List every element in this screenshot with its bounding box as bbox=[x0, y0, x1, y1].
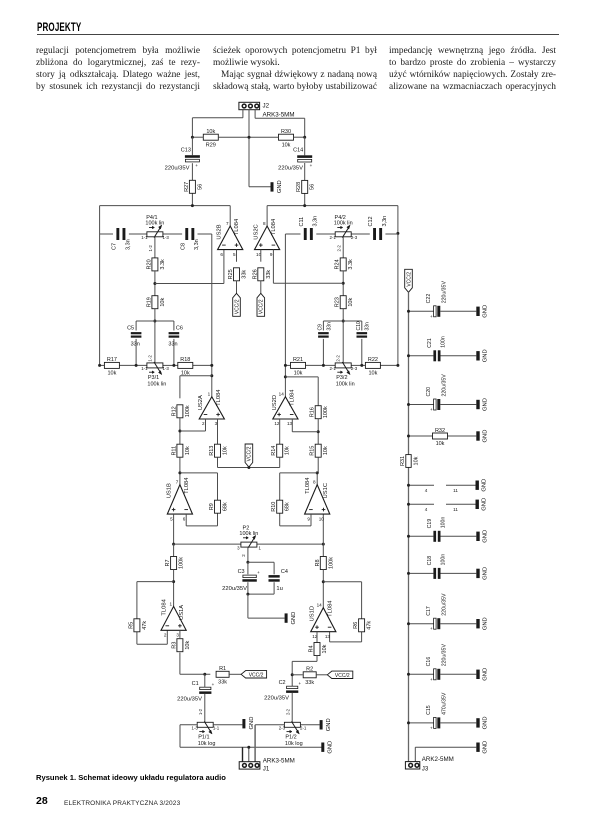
svg-text:GND: GND bbox=[482, 498, 488, 511]
node junction R22 right bbox=[396, 364, 399, 367]
svg-text:R26: R26 bbox=[252, 269, 258, 279]
svg-text:9: 9 bbox=[270, 252, 273, 257]
node junction US1C out bbox=[316, 471, 319, 474]
op-amp US2B bbox=[217, 218, 243, 257]
resistor R9 bbox=[209, 500, 229, 513]
wire US2A plus leg to R13 bbox=[217, 419, 219, 444]
svg-text:10k: 10k bbox=[160, 298, 166, 307]
wire US2B plus to R25 bbox=[236, 250, 238, 262]
node junction C10 bottom bbox=[360, 364, 363, 367]
svg-text:R23: R23 bbox=[335, 297, 341, 307]
connector J1 (ARK3-5MM) bbox=[239, 758, 295, 773]
svg-text:100k lin: 100k lin bbox=[145, 221, 164, 227]
svg-text:C22: C22 bbox=[426, 294, 432, 304]
svg-text:C10: C10 bbox=[356, 321, 362, 330]
op-amp US2C bbox=[254, 218, 280, 257]
wire supply rail upper bbox=[408, 292, 410, 455]
svg-text:5: 5 bbox=[170, 516, 173, 521]
wire power pins row 2 bbox=[409, 504, 476, 512]
svg-text:C1: C1 bbox=[192, 681, 199, 687]
svg-text:220u/35V: 220u/35V bbox=[278, 166, 303, 172]
svg-text:C6: C6 bbox=[176, 326, 183, 332]
wire C21 row bbox=[409, 355, 477, 357]
svg-text:R16: R16 bbox=[310, 407, 316, 417]
wire R14 to VCC rail bbox=[279, 457, 281, 467]
svg-text:GND: GND bbox=[483, 716, 489, 729]
wire US2A input column bbox=[211, 234, 213, 397]
wire C22 row bbox=[409, 310, 477, 312]
resistor R16 bbox=[310, 406, 330, 419]
svg-text:1-3: 1-3 bbox=[163, 235, 170, 240]
wire US1A plus to R3 bbox=[179, 630, 181, 638]
node junction C9 bottom bbox=[322, 364, 325, 367]
potentiometer P4/1 (100k lin) bbox=[141, 215, 169, 251]
svg-text:GND: GND bbox=[483, 349, 489, 362]
op-amp US1B bbox=[166, 477, 192, 522]
svg-text:US2D: US2D bbox=[272, 395, 278, 410]
svg-text:R31: R31 bbox=[400, 456, 406, 466]
svg-text:3,3n: 3,3n bbox=[382, 216, 388, 227]
svg-text:C16: C16 bbox=[426, 657, 432, 667]
svg-text:33k: 33k bbox=[305, 680, 314, 686]
wire right top feedback net bbox=[267, 206, 398, 366]
wire J1 stubs bbox=[243, 747, 249, 762]
svg-text:VCC/2: VCC/2 bbox=[259, 299, 265, 314]
wire C14 branch bbox=[304, 137, 306, 205]
svg-text:14: 14 bbox=[317, 603, 323, 608]
capacitor C17 (220u/35V) bbox=[426, 593, 447, 631]
resistor R13 bbox=[209, 444, 229, 457]
node junction rail/R17 bbox=[98, 364, 101, 367]
node junction US1D out bbox=[322, 580, 325, 583]
svg-text:100k lin: 100k lin bbox=[239, 531, 258, 537]
wire P1/1 left loop bbox=[180, 725, 323, 747]
wire C2 node to R2 bbox=[292, 674, 303, 676]
node junction C12 right bbox=[396, 232, 399, 235]
potentiometer P3/2 (100k lin) bbox=[330, 355, 358, 388]
svg-text:220u/35V: 220u/35V bbox=[442, 644, 448, 667]
svg-text:R22: R22 bbox=[368, 357, 378, 363]
svg-text:J3: J3 bbox=[422, 766, 429, 773]
resistor R4 bbox=[309, 643, 329, 656]
wire R23 to P3/2 wiper bbox=[342, 309, 344, 363]
svg-text:VCC/2: VCC/2 bbox=[249, 672, 264, 678]
capacitor C16 (220u/35V) bbox=[426, 644, 447, 682]
svg-text:R9: R9 bbox=[209, 503, 215, 510]
svg-text:100k: 100k bbox=[185, 405, 191, 417]
node junction VCC mid bbox=[247, 466, 250, 469]
power flag VCC/2 (R1) bbox=[241, 671, 267, 679]
svg-text:33n: 33n bbox=[131, 342, 140, 348]
svg-text:R8: R8 bbox=[315, 559, 321, 566]
svg-text:C17: C17 bbox=[426, 606, 432, 616]
ground GND (C16) bbox=[476, 668, 488, 681]
svg-text:US2C: US2C bbox=[254, 224, 260, 239]
svg-text:10k: 10k bbox=[185, 641, 191, 650]
svg-text:10k: 10k bbox=[185, 446, 191, 455]
svg-text:2-2: 2-2 bbox=[336, 355, 341, 362]
svg-text:10k: 10k bbox=[282, 142, 291, 148]
capacitor C6 (33n) bbox=[168, 326, 183, 348]
svg-text:8: 8 bbox=[263, 221, 266, 226]
node junction pins2 bbox=[407, 503, 410, 506]
svg-text:47k: 47k bbox=[142, 621, 148, 630]
svg-text:ARK2-5MM: ARK2-5MM bbox=[422, 756, 454, 763]
op-amp US2D bbox=[272, 389, 298, 426]
svg-text:7: 7 bbox=[176, 480, 179, 485]
wire P1/2 left to J1 bbox=[255, 725, 284, 762]
resistor R11 bbox=[171, 444, 191, 457]
svg-text:1: 1 bbox=[169, 601, 172, 606]
ground GND (P1/1) bbox=[242, 717, 254, 730]
svg-text:12: 12 bbox=[274, 421, 280, 426]
resistor R23 bbox=[335, 296, 355, 309]
svg-text:10k: 10k bbox=[414, 456, 420, 465]
ground GND (J3) bbox=[476, 741, 488, 754]
node junction wiper bbox=[246, 561, 249, 564]
wire P1/2 right to GND bbox=[300, 724, 319, 726]
wire R12 to R11 junction bbox=[179, 418, 181, 444]
ground GND (C21) bbox=[476, 349, 488, 362]
wire C17 row bbox=[409, 623, 477, 625]
wire C2 to P1/2 bbox=[286, 693, 293, 723]
resistor R6 bbox=[353, 619, 373, 632]
node junction C15 bbox=[407, 721, 410, 724]
node junction R20/R19 bbox=[153, 282, 156, 285]
svg-text:220u/35V: 220u/35V bbox=[442, 374, 448, 397]
svg-text:68k: 68k bbox=[223, 502, 229, 511]
wire US1A feedback R5 bbox=[137, 582, 174, 645]
svg-text:10k: 10k bbox=[107, 371, 116, 377]
wire mid rail bbox=[174, 543, 324, 545]
ground GND (J2) bbox=[271, 180, 284, 193]
svg-text:GND: GND bbox=[483, 430, 489, 443]
wire US1D plus to R4 bbox=[316, 632, 318, 643]
resistor R27 bbox=[184, 180, 204, 193]
svg-text:2-2: 2-2 bbox=[286, 708, 291, 715]
resistor R18 bbox=[178, 357, 193, 376]
node junction R12/R11 bbox=[178, 430, 181, 433]
capacitor C13 (220u/35V) bbox=[165, 148, 200, 172]
svg-text:4: 4 bbox=[425, 507, 428, 512]
svg-text:R27: R27 bbox=[184, 182, 190, 192]
capacitor C11 (3,3n) bbox=[299, 216, 319, 240]
svg-text:TL084: TL084 bbox=[234, 218, 240, 235]
power flag VCC/2 (US2C) bbox=[257, 293, 265, 316]
svg-text:13: 13 bbox=[287, 421, 293, 426]
svg-text:C4: C4 bbox=[281, 569, 288, 575]
svg-text:3,3n: 3,3n bbox=[313, 216, 319, 227]
wire R24 to R23 bbox=[342, 271, 344, 296]
node junction US1B out bbox=[178, 471, 181, 474]
svg-text:R5: R5 bbox=[128, 622, 134, 629]
svg-text:1-2: 1-2 bbox=[147, 355, 152, 362]
wire P4/2 wiper to R24 bbox=[342, 237, 344, 259]
svg-text:TL084: TL084 bbox=[305, 477, 311, 494]
svg-text:TL084: TL084 bbox=[162, 598, 168, 615]
wire US1C feedback R10 bbox=[280, 473, 318, 526]
wire C5 C6 row bbox=[136, 321, 174, 365]
svg-text:6: 6 bbox=[220, 252, 223, 257]
wire US2B minus feedback bbox=[155, 250, 224, 284]
svg-text:R14: R14 bbox=[271, 446, 277, 456]
wire R13 to VCC rail bbox=[217, 457, 219, 467]
svg-text:J1: J1 bbox=[263, 766, 270, 773]
node junction C2 bbox=[291, 673, 294, 676]
wire R25 to VCC flag bbox=[236, 281, 238, 294]
capacitor C9 (33n) bbox=[318, 322, 333, 338]
svg-text:GND: GND bbox=[483, 530, 489, 543]
power flag VCC/2 (column) bbox=[405, 269, 413, 292]
svg-text:3,3n: 3,3n bbox=[194, 239, 200, 250]
svg-text:6: 6 bbox=[183, 516, 186, 521]
wire R21 row bbox=[285, 364, 398, 366]
svg-text:TL084: TL084 bbox=[184, 477, 190, 494]
potentiometer P3/1 (100k lin) bbox=[141, 355, 169, 388]
node junction C5/C6 row bbox=[153, 320, 156, 323]
svg-text:P3/2: P3/2 bbox=[336, 375, 347, 381]
wire US2D feedback to R16 bbox=[285, 377, 318, 406]
wire power pins row 1 bbox=[409, 485, 476, 493]
svg-text:33n: 33n bbox=[168, 342, 177, 348]
op-amp US1C bbox=[305, 477, 330, 522]
node junction R32 bbox=[407, 435, 410, 438]
svg-text:100k lin: 100k lin bbox=[334, 221, 353, 227]
svg-text:7: 7 bbox=[226, 221, 229, 226]
svg-text:220u/35V: 220u/35V bbox=[442, 281, 448, 304]
svg-text:R11: R11 bbox=[171, 446, 177, 456]
wire J2 pin1 to R29 bbox=[192, 110, 243, 138]
svg-text:C14: C14 bbox=[293, 148, 303, 154]
svg-text:GND: GND bbox=[483, 305, 489, 318]
potentiometer P4/2 (100k lin) bbox=[330, 215, 358, 251]
svg-text:56: 56 bbox=[197, 184, 203, 190]
resistor R5 bbox=[128, 619, 148, 632]
svg-text:GND: GND bbox=[326, 718, 332, 731]
svg-text:11: 11 bbox=[453, 507, 458, 512]
svg-text:R15: R15 bbox=[310, 446, 316, 456]
wire VCC/2 mid rail bbox=[218, 467, 280, 469]
wire US2D input column bbox=[284, 234, 286, 397]
wire C3 C4 bottom bbox=[248, 582, 274, 594]
svg-text:2: 2 bbox=[164, 633, 167, 638]
wire C1 branch bbox=[198, 674, 205, 722]
svg-text:R10: R10 bbox=[271, 502, 277, 512]
svg-text:3.3k: 3.3k bbox=[160, 259, 166, 270]
svg-text:R25: R25 bbox=[228, 269, 234, 279]
connector J2 (ARK3-5MM) bbox=[239, 102, 295, 118]
svg-text:US2A: US2A bbox=[198, 395, 204, 410]
svg-text:2: 2 bbox=[202, 421, 205, 426]
wire R32 row bbox=[409, 435, 477, 437]
resistor R15 bbox=[310, 444, 330, 457]
svg-text:US1A: US1A bbox=[179, 605, 185, 620]
svg-text:VCC/2: VCC/2 bbox=[247, 446, 253, 461]
svg-text:100n: 100n bbox=[441, 336, 447, 348]
node junction C13 top net bbox=[191, 204, 194, 207]
svg-text:P1/1: P1/1 bbox=[198, 735, 209, 741]
ground GND (C15) bbox=[476, 716, 488, 729]
capacitor C19 (100n) bbox=[427, 517, 446, 542]
svg-text:R20: R20 bbox=[146, 259, 152, 269]
capacitor C3 (220u/35V) bbox=[222, 569, 260, 592]
capacitor C12 (3,3n) bbox=[368, 216, 388, 240]
svg-text:68k: 68k bbox=[285, 502, 291, 511]
svg-text:1u: 1u bbox=[276, 586, 282, 592]
svg-text:220u/35V: 220u/35V bbox=[165, 166, 190, 172]
svg-text:C12: C12 bbox=[368, 216, 374, 226]
svg-text:C13: C13 bbox=[181, 148, 191, 154]
svg-text:9: 9 bbox=[307, 516, 310, 521]
svg-text:1-2: 1-2 bbox=[198, 708, 203, 715]
node junction C5 bottom bbox=[135, 364, 138, 367]
wire C11 row bbox=[285, 233, 398, 235]
wire J2 pin3 to R30 bbox=[255, 110, 305, 138]
resistor R7 bbox=[165, 557, 185, 570]
resistor R3 bbox=[171, 639, 191, 652]
resistor R24 bbox=[335, 258, 355, 271]
svg-text:US1D: US1D bbox=[310, 606, 316, 621]
svg-text:1: 1 bbox=[208, 392, 211, 397]
node junction middle bbox=[248, 136, 251, 139]
svg-text:11: 11 bbox=[453, 488, 458, 493]
resistor R25 bbox=[228, 268, 248, 281]
potentiometer P1/1 (10k log) bbox=[192, 721, 220, 747]
capacitor C10 (33n) bbox=[356, 321, 371, 338]
node junction C17 bbox=[407, 622, 410, 625]
svg-text:R28: R28 bbox=[296, 182, 302, 192]
svg-text:33n: 33n bbox=[365, 322, 371, 331]
ground GND (R32) bbox=[476, 430, 488, 443]
ground GND (C20) bbox=[476, 398, 488, 411]
svg-text:33n: 33n bbox=[326, 322, 332, 331]
node junction J1 mid bbox=[247, 746, 250, 749]
svg-text:GND: GND bbox=[249, 717, 255, 730]
svg-text:3,3n: 3,3n bbox=[125, 239, 131, 250]
capacitor C18 (100n) bbox=[427, 554, 446, 579]
svg-text:33k: 33k bbox=[218, 680, 227, 686]
svg-text:8: 8 bbox=[313, 480, 316, 485]
svg-text:C8: C8 bbox=[180, 243, 186, 250]
svg-text:+: + bbox=[430, 677, 433, 682]
wire rail to R7 bbox=[173, 544, 175, 557]
node junction US1A out bbox=[172, 580, 175, 583]
wire R16 to R15 junction bbox=[317, 419, 319, 445]
wire R7 to US1A bbox=[173, 569, 175, 606]
node junction R30 right bbox=[303, 136, 306, 139]
svg-text:33k: 33k bbox=[242, 270, 248, 279]
node junction R16/R15 bbox=[317, 430, 320, 433]
connector J3 (ARK2-5MM) bbox=[405, 756, 453, 773]
op-amp US2A bbox=[198, 389, 224, 426]
svg-text:R19: R19 bbox=[146, 297, 152, 307]
svg-text:GND: GND bbox=[483, 668, 489, 681]
wire rail to R8 bbox=[322, 514, 324, 557]
resistor R30 bbox=[279, 129, 294, 148]
svg-text:GND: GND bbox=[483, 398, 489, 411]
wire US1D feedback R6 bbox=[323, 582, 361, 642]
svg-text:+: + bbox=[430, 626, 433, 631]
svg-text:P1/2: P1/2 bbox=[285, 735, 296, 741]
potentiometer P1/2 (10k log) bbox=[279, 721, 307, 747]
svg-text:2: 2 bbox=[241, 554, 246, 557]
svg-text:10k: 10k bbox=[322, 644, 328, 653]
svg-text:3: 3 bbox=[176, 633, 179, 638]
ground GND (pins2) bbox=[476, 498, 488, 511]
wire to GND bbox=[248, 594, 285, 618]
svg-text:10k: 10k bbox=[294, 371, 303, 377]
capacitor C8 (3,3n) bbox=[180, 228, 200, 250]
ground GND (C22) bbox=[476, 305, 488, 318]
svg-text:R32: R32 bbox=[435, 428, 445, 434]
capacitor C20 (220u/35V) bbox=[426, 374, 447, 412]
svg-text:C9: C9 bbox=[318, 324, 324, 331]
node junction US2A out bbox=[210, 374, 213, 377]
resistor R26 bbox=[252, 268, 272, 281]
svg-text:+: + bbox=[257, 570, 260, 575]
node junction C3 bottom bbox=[246, 593, 249, 596]
node junction R21 left bbox=[284, 364, 287, 367]
svg-text:5: 5 bbox=[233, 252, 236, 257]
svg-text:C20: C20 bbox=[426, 387, 432, 397]
ground GND (C19) bbox=[476, 530, 488, 543]
svg-text:14: 14 bbox=[279, 392, 285, 397]
resistor R10 bbox=[271, 500, 291, 513]
svg-text:R2: R2 bbox=[306, 667, 313, 673]
node junction C1 bbox=[203, 673, 206, 676]
svg-text:+: + bbox=[195, 163, 198, 168]
wire R11 to US1B bbox=[179, 457, 181, 485]
svg-text:2-3: 2-3 bbox=[351, 235, 358, 240]
wire US2D minus leg bbox=[292, 419, 318, 432]
svg-text:R4: R4 bbox=[309, 645, 315, 652]
node junction US2D out bbox=[284, 375, 287, 378]
op-amp US1D bbox=[310, 600, 336, 639]
node junction C18 bbox=[407, 572, 410, 575]
resistor R8 bbox=[315, 557, 335, 570]
wire C16 row bbox=[409, 673, 477, 675]
wire R1 to flag bbox=[229, 673, 241, 675]
svg-text:47k: 47k bbox=[367, 621, 373, 630]
wire C9 C10 row bbox=[323, 321, 361, 365]
svg-text:VCC/2: VCC/2 bbox=[335, 673, 350, 679]
node junction C19 bbox=[407, 535, 410, 538]
svg-text:10k: 10k bbox=[436, 441, 445, 447]
wire supply rail lower bbox=[408, 467, 410, 762]
wire US2A feedback to R12 bbox=[180, 376, 212, 399]
svg-text:10k: 10k bbox=[368, 371, 377, 377]
resistor R1 bbox=[216, 666, 229, 685]
capacitor C2 (220u/35V) bbox=[264, 680, 301, 701]
svg-text:33k: 33k bbox=[266, 270, 272, 279]
svg-text:R18: R18 bbox=[180, 357, 190, 363]
wire P1/1 right to GND bbox=[213, 724, 242, 726]
wire bottom GND row bbox=[415, 747, 476, 762]
svg-text:R17: R17 bbox=[107, 357, 117, 363]
node junction C6 bottom bbox=[172, 364, 175, 367]
svg-text:1-3: 1-3 bbox=[163, 366, 170, 371]
capacitor C22 (220u/35V) bbox=[426, 281, 447, 319]
svg-text:TL084: TL084 bbox=[289, 389, 295, 406]
node junction C16 bbox=[407, 673, 410, 676]
wire C15 row bbox=[409, 722, 477, 724]
wire US2D plus leg to R14 bbox=[279, 419, 281, 444]
svg-text:1-2: 1-2 bbox=[148, 245, 153, 252]
svg-text:10k: 10k bbox=[285, 446, 291, 455]
svg-text:R6: R6 bbox=[353, 622, 359, 629]
svg-text:100k lin: 100k lin bbox=[147, 382, 166, 388]
svg-text:4: 4 bbox=[425, 488, 428, 493]
